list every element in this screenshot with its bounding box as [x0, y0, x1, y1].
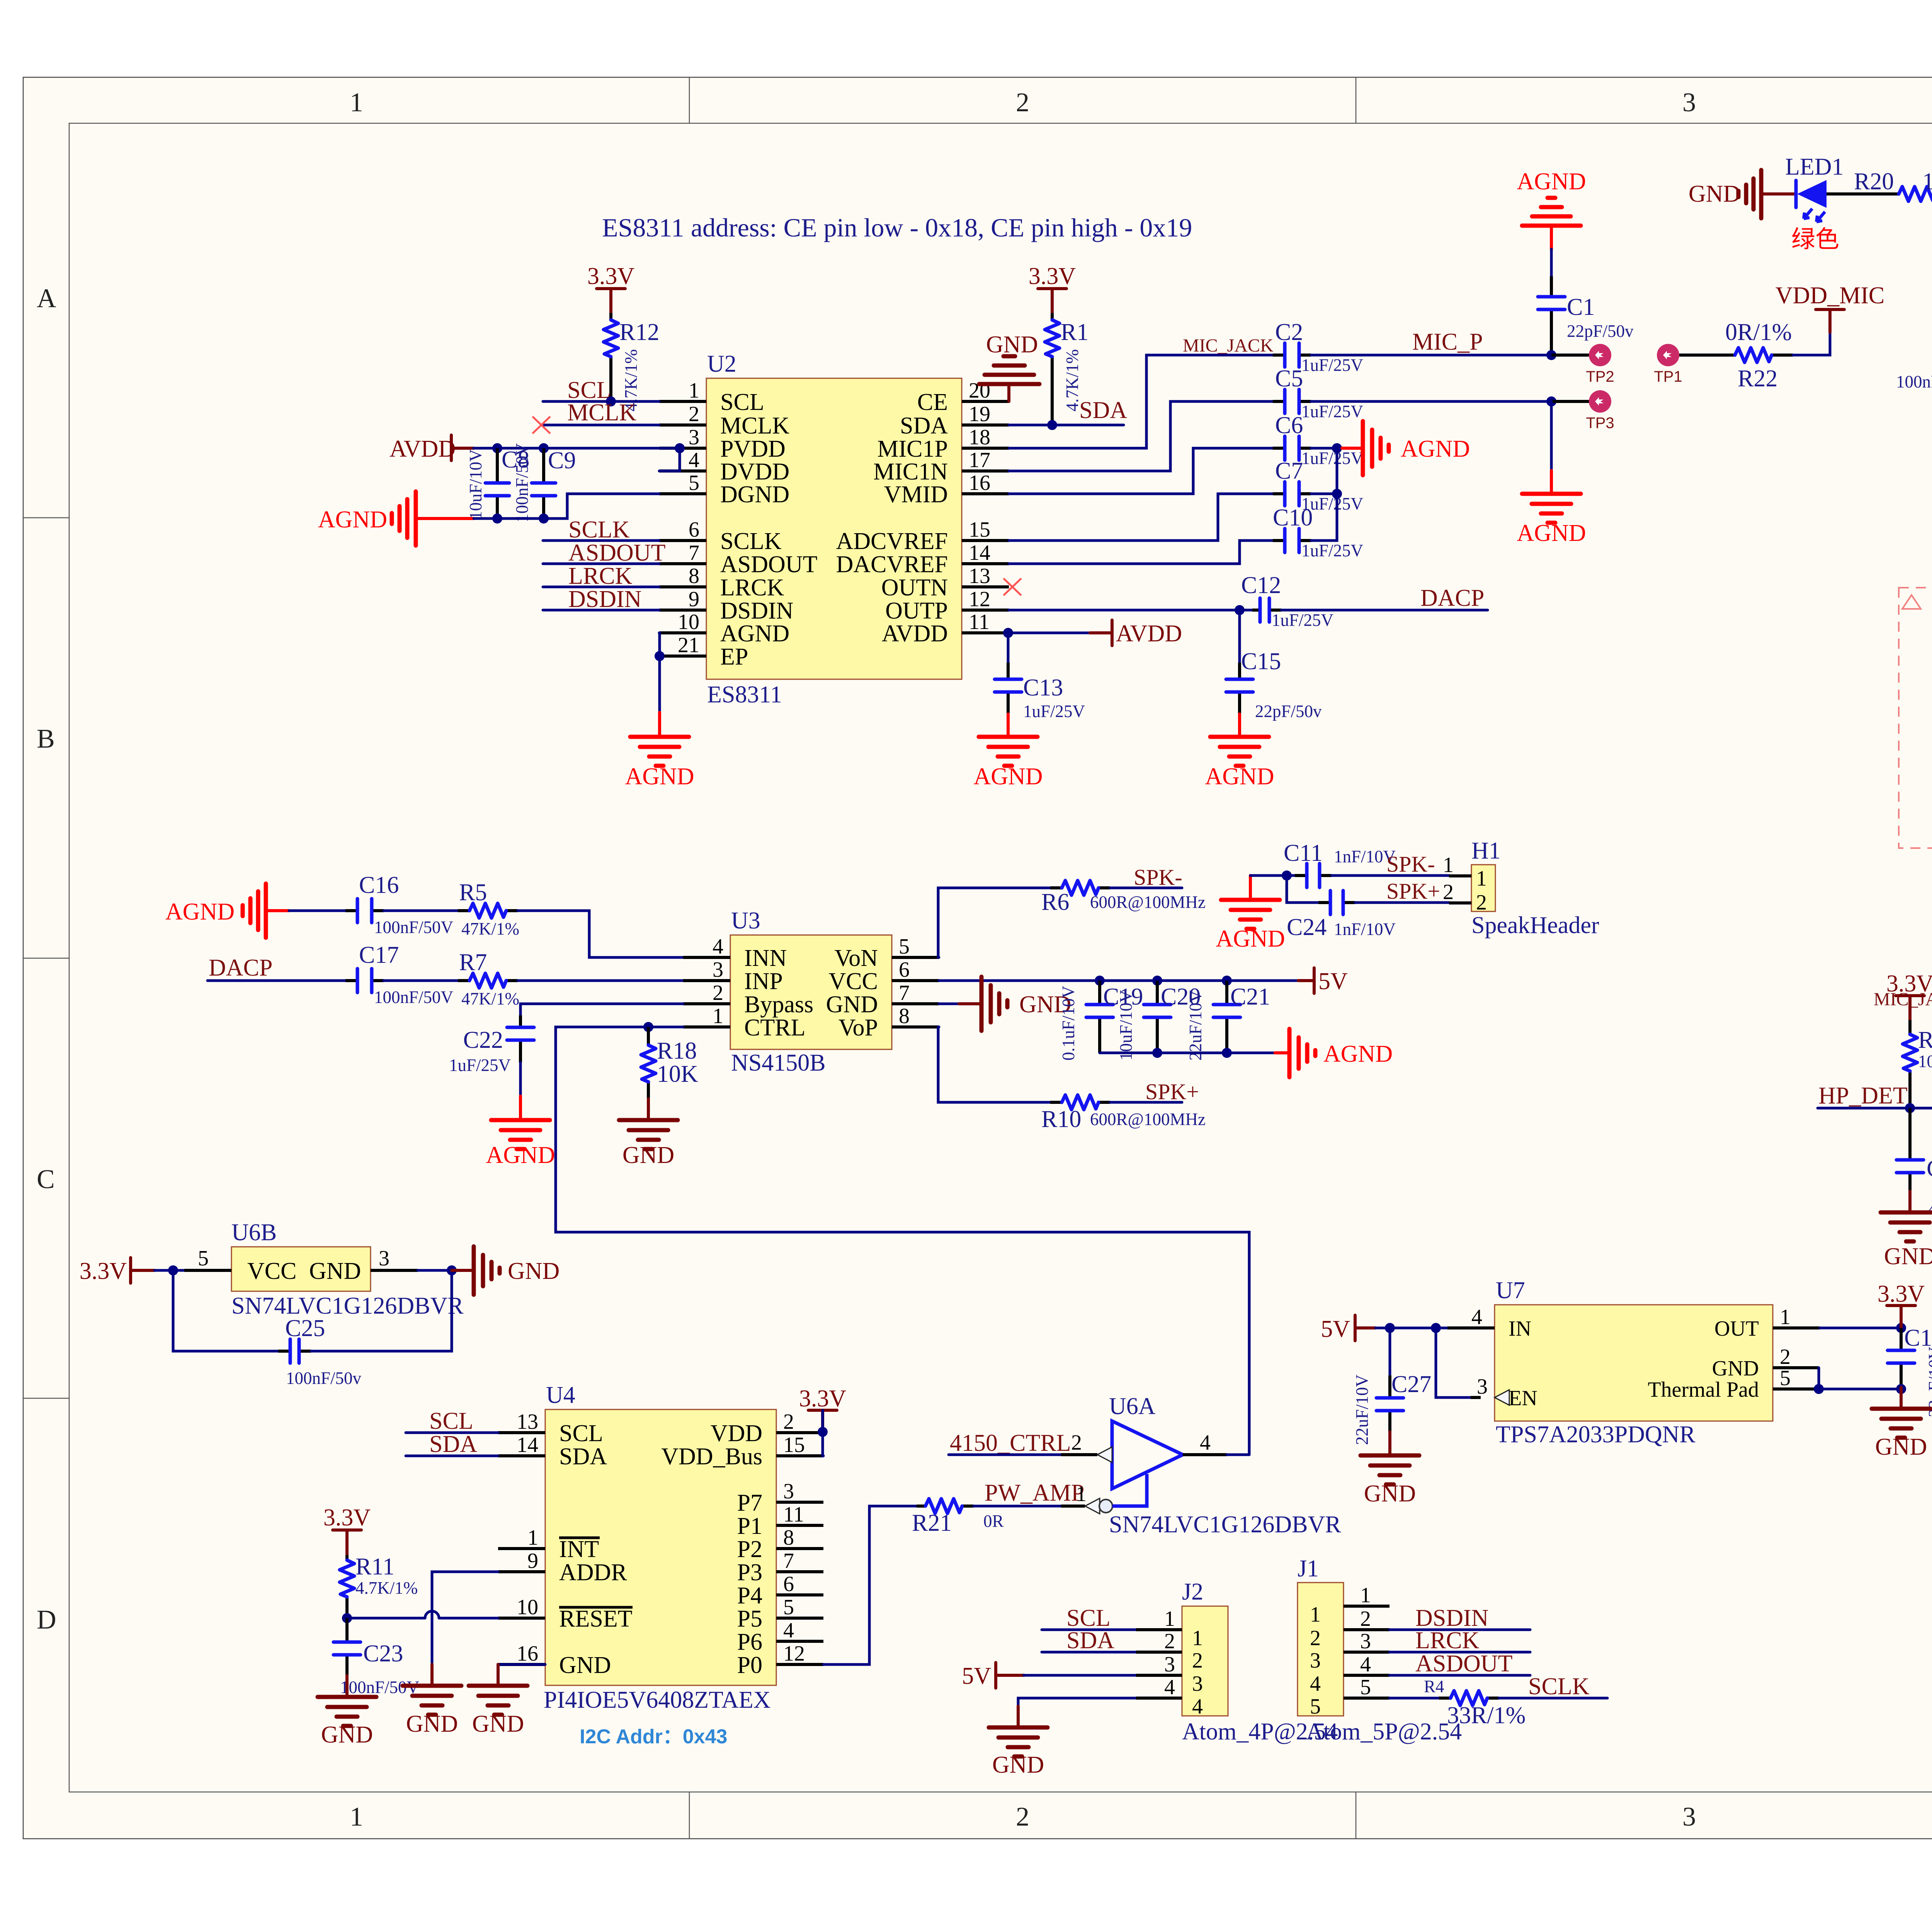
svg-text:INN: INN: [744, 945, 787, 971]
svg-text:5V: 5V: [1321, 1316, 1350, 1342]
ground AGND (left rail): [318, 491, 474, 546]
svg-text:AGND: AGND: [486, 1142, 555, 1168]
svg-text:7: 7: [689, 541, 699, 565]
svg-text:6: 6: [899, 958, 910, 982]
svg-text:Bypass: Bypass: [744, 991, 813, 1018]
power flag AVDD (left): [389, 435, 474, 462]
capacitor C21 22uF/10V: [1186, 981, 1270, 1061]
svg-text:C11: C11: [1284, 840, 1323, 866]
svg-text:GND: GND: [508, 1258, 560, 1284]
svg-text:2: 2: [1443, 880, 1454, 904]
resistor R5 47K/1%: [384, 879, 519, 938]
junction C18 bottom: [1896, 1384, 1906, 1394]
ground GND (C23): [318, 1676, 376, 1748]
capacitor C8 10uF/10V: [466, 447, 529, 520]
wire P0 to R21: [823, 1506, 917, 1664]
svg-text:21: 21: [678, 633, 699, 657]
svg-text:1: 1: [1476, 867, 1487, 891]
svg-text:10K: 10K: [657, 1061, 698, 1087]
ground AGND (C11): [1216, 876, 1285, 952]
svg-text:ES8311: ES8311: [707, 682, 782, 708]
U2 pin 11 AVDD: [962, 631, 1009, 634]
svg-text:ADCVREF: ADCVREF: [836, 528, 948, 554]
U2 pin 8 LRCK: [659, 585, 706, 588]
power flag 3.3V (U6B): [80, 1258, 155, 1284]
svg-text:47K/1%: 47K/1%: [461, 989, 519, 1008]
svg-text:C21: C21: [1230, 984, 1270, 1010]
svg-text:5: 5: [783, 1595, 794, 1619]
U2 pin 21 EP: [659, 655, 706, 658]
U4 pin 8 P2: [776, 1547, 823, 1550]
svg-text:DVDD: DVDD: [720, 459, 789, 485]
U4 pin 9 ADDR: [498, 1570, 545, 1573]
wire DGND rail: [474, 494, 659, 519]
svg-text:5: 5: [899, 935, 910, 959]
svg-text:C7: C7: [1275, 458, 1303, 484]
svg-text:GND: GND: [986, 332, 1038, 358]
svg-text:AGND: AGND: [1205, 763, 1274, 790]
wire LRCK: [543, 586, 659, 588]
svg-text:AGND: AGND: [1401, 436, 1470, 462]
svg-text:SN74LVC1G126DBVR: SN74LVC1G126DBVR: [1109, 1511, 1341, 1538]
svg-text:AGND: AGND: [1323, 1041, 1393, 1067]
wire DACP: [1281, 609, 1488, 612]
no-connect X OUTN: [1003, 578, 1021, 595]
svg-text:600R@100MHz: 600R@100MHz: [1090, 1110, 1206, 1129]
svg-text:17: 17: [969, 448, 990, 472]
capacitor C10 1uF/25V: [1273, 505, 1363, 560]
svg-text:C22: C22: [463, 1027, 503, 1053]
svg-text:OUTP: OUTP: [885, 598, 948, 624]
svg-text:10uF/10V: 10uF/10V: [1116, 990, 1136, 1061]
U2 pin 17 MIC1N: [962, 469, 1009, 473]
resistor R4 33R/1%: [1389, 1677, 1526, 1729]
svg-text:PI4IOE5V6408ZTAEX: PI4IOE5V6408ZTAEX: [544, 1687, 770, 1713]
svg-text:P3: P3: [737, 1559, 762, 1586]
svg-text:0R: 0R: [983, 1511, 1004, 1531]
U4 pin 2 VDD: [776, 1431, 823, 1434]
svg-text:ASDOUT: ASDOUT: [1415, 1651, 1512, 1677]
power flag 5V (J2): [962, 1663, 1024, 1689]
ground AGND (C1 top): [1517, 168, 1586, 249]
capacitor C20 10uF/10V: [1116, 981, 1201, 1061]
svg-text:U3: U3: [731, 908, 760, 934]
U2 pin 4 DVDD: [659, 469, 706, 473]
U4 pin 15 VDD_Bus: [776, 1454, 823, 1457]
svg-text:C17: C17: [359, 942, 399, 968]
U4 pin 10 RESET: [498, 1617, 545, 1620]
ground AGND (C22): [486, 1096, 555, 1168]
svg-text:22pF/50v: 22pF/50v: [1567, 321, 1634, 341]
connector J1 Atom_5P@2.54: [1298, 1556, 1462, 1745]
power flag 3.3V (R13): [1886, 971, 1932, 1020]
junction C9 bottom: [539, 513, 549, 524]
svg-text:Thermal Pad: Thermal Pad: [1648, 1378, 1759, 1402]
svg-text:2: 2: [1192, 1649, 1203, 1673]
IC U3 NS4150B: [683, 908, 939, 1076]
junction R13/C26: [1905, 1103, 1915, 1113]
svg-text:3: 3: [1682, 1802, 1696, 1832]
svg-text:7: 7: [899, 981, 910, 1005]
svg-text:6: 6: [783, 1572, 794, 1596]
svg-text:1: 1: [350, 88, 363, 117]
U2 pin 12 OUTP: [962, 609, 1009, 612]
ground GND (R18): [619, 1099, 678, 1168]
svg-text:1: 1: [350, 1802, 363, 1832]
svg-text:5: 5: [689, 471, 699, 495]
svg-text:U4: U4: [546, 1382, 575, 1408]
svg-text:3.3V: 3.3V: [80, 1258, 127, 1284]
svg-text:TP3: TP3: [1586, 415, 1614, 432]
svg-text:AGND: AGND: [625, 763, 694, 790]
svg-text:5: 5: [1780, 1366, 1791, 1390]
svg-text:22uF/10V: 22uF/10V: [1352, 1374, 1372, 1445]
connector H1 SpeakHeader: [1443, 838, 1599, 938]
svg-text:SPK-: SPK-: [1386, 852, 1435, 877]
svg-text:GND: GND: [622, 1142, 674, 1168]
resistor R7 47K/1%: [384, 949, 519, 1008]
svg-text:EN: EN: [1509, 1386, 1537, 1410]
svg-text:R20: R20: [1854, 168, 1894, 195]
IC U4 PI4IOE5V6408ZTAEX: [498, 1382, 823, 1713]
wire ASDOUT: [543, 563, 659, 565]
ground AGND (C16): [165, 884, 289, 938]
capacitor C7 1uF/25V: [1273, 458, 1363, 513]
U2 pin 7 ASDOUT: [659, 562, 706, 565]
svg-text:SCLK: SCLK: [1528, 1673, 1590, 1700]
wire OUTP: [1009, 609, 1252, 612]
wire VMID to C6: [1009, 448, 1273, 494]
svg-text:SDA: SDA: [900, 413, 948, 439]
ground GND (LED1): [1689, 170, 1796, 218]
svg-text:1: 1: [713, 1004, 723, 1028]
svg-text:8: 8: [899, 1004, 910, 1028]
svg-text:DSDIN: DSDIN: [568, 586, 641, 612]
capacitor C12 1uF/25V: [1241, 572, 1333, 630]
wire SDA: [1009, 424, 1124, 427]
svg-text:2: 2: [1310, 1626, 1321, 1650]
IC U6B SN74LVC1G126DBVR: [184, 1219, 464, 1319]
wire C7 to AGND column: [1311, 448, 1337, 494]
svg-text:C6: C6: [1275, 412, 1303, 439]
junction EP: [655, 651, 665, 661]
svg-text:AGND: AGND: [1517, 520, 1586, 546]
svg-text:3: 3: [1477, 1375, 1488, 1399]
ground AGND (U2 EP): [625, 712, 694, 790]
svg-text:4: 4: [713, 935, 723, 959]
svg-text:3.3V: 3.3V: [323, 1505, 371, 1531]
svg-text:DGND: DGND: [720, 481, 789, 508]
wire to C24: [1287, 876, 1318, 903]
svg-text:C24: C24: [1287, 914, 1327, 940]
svg-text:AGND: AGND: [165, 899, 235, 925]
resistor R21 0R: [912, 1499, 1004, 1536]
svg-text:11: 11: [969, 610, 990, 634]
svg-text:5: 5: [1360, 1675, 1371, 1699]
ground AGND (TP3): [1517, 471, 1586, 546]
svg-text:5V: 5V: [962, 1663, 991, 1689]
resistor R11 4.7K/1%: [340, 1554, 418, 1618]
U2 pin 2 MCLK: [659, 423, 706, 427]
svg-text:D: D: [37, 1605, 56, 1635]
ground GND (C18): [1872, 1387, 1930, 1460]
svg-text:C27: C27: [1391, 1371, 1431, 1397]
svg-text:U6B: U6B: [231, 1219, 277, 1246]
U2 pin 13 OUTN: [962, 585, 1009, 588]
capacitor C3 100nF/50v: [1896, 332, 1932, 391]
capacitor C11 1nF/10V: [1284, 840, 1396, 887]
svg-text:100nF/50v: 100nF/50v: [286, 1369, 362, 1388]
U2 pin 14 DACVREF: [962, 562, 1009, 565]
power flag 3.3V (R12): [587, 263, 635, 313]
svg-text:CE: CE: [917, 389, 948, 415]
wire R5 to INN: [518, 911, 683, 957]
svg-text:R6: R6: [1041, 889, 1069, 915]
svg-text:4: 4: [1471, 1305, 1482, 1329]
junction thermal: [1814, 1384, 1824, 1394]
svg-text:DACVREF: DACVREF: [836, 551, 948, 578]
wire SCLK J1: [1499, 1697, 1607, 1700]
wire R7 to INP: [518, 979, 683, 982]
wire ADCVREF to C7: [1009, 494, 1273, 541]
wire SDA (U4): [406, 1455, 498, 1457]
svg-text:DSDIN: DSDIN: [720, 598, 793, 624]
wire CTRL long route to U6A out: [556, 1027, 1249, 1455]
svg-text:C5: C5: [1275, 366, 1303, 392]
wire HP_DET row: [1818, 1107, 1932, 1110]
svg-text:10: 10: [517, 1595, 538, 1619]
junction C11: [1282, 870, 1292, 881]
wire J1 pin2 DSDIN: [1389, 1629, 1530, 1631]
svg-text:15: 15: [783, 1433, 805, 1457]
capacitor C23 100nF/50V: [333, 1618, 419, 1697]
junction C21 bottom: [1222, 1048, 1232, 1058]
svg-text:C10: C10: [1273, 505, 1313, 531]
svg-text:MCLK: MCLK: [720, 413, 789, 439]
resistor R12 4.7K/1%: [604, 313, 659, 411]
junction C18: [1896, 1323, 1906, 1333]
svg-text:12: 12: [969, 587, 990, 611]
svg-text:12: 12: [783, 1642, 805, 1666]
svg-text:C26: C26: [1927, 1156, 1932, 1182]
svg-text:3: 3: [1682, 88, 1696, 117]
U4 pin 1 INT: [498, 1547, 545, 1550]
svg-text:EP: EP: [720, 644, 748, 670]
svg-text:AGND: AGND: [720, 621, 789, 647]
svg-text:AGND: AGND: [1216, 926, 1285, 952]
LED LED1 绿色: [1785, 154, 1844, 253]
svg-text:9: 9: [527, 1549, 538, 1573]
junction C21: [1222, 976, 1232, 986]
svg-text:47K/1%: 47K/1%: [461, 919, 519, 938]
svg-text:P0: P0: [737, 1652, 762, 1678]
svg-text:1uF/25V: 1uF/25V: [1023, 702, 1085, 721]
svg-text:14: 14: [969, 541, 990, 565]
wire AVDD rail: [474, 448, 680, 471]
svg-text:DACP: DACP: [1420, 585, 1484, 611]
svg-text:8: 8: [689, 564, 699, 588]
wire MIC_JACK: [1009, 355, 1273, 448]
svg-text:2: 2: [1071, 1431, 1082, 1455]
wire AGND to C11: [1250, 874, 1295, 877]
svg-text:18: 18: [969, 425, 990, 449]
capacitor C1 22pF/50v: [1538, 249, 1634, 355]
svg-text:4150_CTRL: 4150_CTRL: [950, 1430, 1071, 1456]
wire J1 pin3 LRCK: [1389, 1651, 1530, 1654]
svg-text:4: 4: [1200, 1431, 1211, 1455]
svg-text:OUTN: OUTN: [881, 575, 948, 601]
svg-text:1: 1: [1076, 1482, 1087, 1506]
wire cap bottom rail: [1100, 1052, 1275, 1054]
svg-text:4: 4: [1360, 1652, 1371, 1676]
svg-text:100nF/50V: 100nF/50V: [512, 443, 532, 522]
svg-text:3: 3: [1192, 1672, 1203, 1696]
wire C10 to AGND column: [1311, 494, 1337, 541]
junction C8 bottom: [492, 513, 502, 524]
svg-text:1: 1: [1780, 1305, 1791, 1329]
svg-text:16: 16: [969, 471, 990, 495]
capacitor C13 1uF/25V: [995, 633, 1085, 721]
wire VCC rail: [939, 979, 1298, 982]
U2 pin 16 VMID: [962, 492, 1009, 495]
svg-text:C2: C2: [1275, 319, 1303, 345]
svg-text:PW_AMP: PW_AMP: [985, 1480, 1084, 1506]
svg-text:0R/1%: 0R/1%: [1725, 319, 1792, 345]
svg-text:SDA: SDA: [429, 1431, 477, 1457]
testpoint TP2: [1551, 344, 1614, 385]
junction VDD: [818, 1427, 828, 1437]
svg-text:C12: C12: [1241, 572, 1281, 598]
svg-text:INT: INT: [559, 1536, 599, 1562]
capacitor C9 100nF/50V: [512, 443, 576, 522]
svg-text:A: A: [37, 284, 56, 313]
svg-text:SDA: SDA: [559, 1443, 607, 1470]
wire GND pin16 down: [498, 1664, 545, 1686]
svg-text:R11: R11: [355, 1554, 395, 1580]
svg-text:R5: R5: [459, 879, 487, 906]
capacitor C6 1uF/25V: [1273, 412, 1363, 468]
ground GND (ADDR): [403, 1664, 461, 1737]
junction C20: [1152, 976, 1162, 986]
U4 pin 16 GND: [498, 1663, 545, 1666]
svg-text:P4: P4: [737, 1583, 762, 1609]
svg-text:3: 3: [689, 425, 699, 449]
capacitor C16 100nF/50V: [289, 872, 453, 937]
svg-text:4: 4: [1164, 1675, 1175, 1699]
resistor R20 1K: [1827, 168, 1932, 201]
U4 pin 3 P7: [776, 1501, 823, 1504]
svg-text:R10: R10: [1041, 1106, 1081, 1132]
svg-text:MIC_JACK: MIC_JACK: [1183, 335, 1274, 356]
svg-text:1: 1: [1310, 1603, 1321, 1627]
svg-text:600R@100MHz: 600R@100MHz: [1090, 893, 1206, 912]
svg-text:2: 2: [783, 1410, 794, 1434]
power flag VDD_MIC (R22): [1776, 282, 1884, 332]
svg-text:VDD: VDD: [711, 1420, 762, 1447]
svg-text:ES8311 address: CE pin low - 0: ES8311 address: CE pin low - 0x18, CE pi…: [602, 213, 1192, 242]
wire TP3 to AGND: [1550, 401, 1553, 471]
svg-text:2: 2: [1164, 1629, 1175, 1653]
svg-text:C25: C25: [285, 1315, 325, 1341]
svg-text:MIC_P: MIC_P: [1412, 329, 1483, 355]
svg-text:LRCK: LRCK: [720, 575, 784, 601]
svg-text:100nF/50v: 100nF/50v: [1896, 372, 1932, 391]
junction C7: [1332, 489, 1342, 499]
junction EN drop: [1431, 1323, 1441, 1333]
svg-text:2: 2: [1780, 1345, 1791, 1369]
svg-text:2: 2: [1016, 88, 1029, 117]
svg-text:SPK-: SPK-: [1134, 865, 1182, 890]
svg-text:6: 6: [689, 518, 699, 542]
power flag 3.3V (R1): [1029, 263, 1076, 313]
svg-text:GND: GND: [472, 1711, 524, 1737]
svg-text:C16: C16: [359, 872, 399, 898]
junction C6/AGND: [1332, 443, 1342, 453]
wire AVDD pin11: [1009, 632, 1090, 634]
U2 pin 15 ADCVREF: [962, 539, 1009, 542]
wire MIC1N to C5: [1009, 401, 1273, 471]
junction C1/MIC_P: [1546, 350, 1556, 360]
svg-text:4: 4: [1192, 1695, 1203, 1719]
capacitor C26 4.7uF/25V: [1896, 1108, 1932, 1221]
svg-text:TPS7A2033PDQNR: TPS7A2033PDQNR: [1496, 1421, 1696, 1448]
wire VDD/VDD_Bus: [823, 1410, 823, 1456]
svg-text:13: 13: [517, 1410, 538, 1434]
svg-text:U6A: U6A: [1109, 1393, 1156, 1420]
capacitor C15 22pF/50v: [1226, 610, 1322, 721]
wire AGND/EP: [659, 633, 660, 712]
resistor R18 10K: [641, 1027, 698, 1104]
svg-text:100nF/50V: 100nF/50V: [374, 918, 453, 937]
svg-text:C9: C9: [548, 447, 576, 474]
svg-text:C15: C15: [1241, 648, 1281, 675]
junction TP3: [1546, 396, 1556, 406]
svg-text:J2: J2: [1182, 1579, 1203, 1605]
svg-text:GND: GND: [559, 1652, 611, 1678]
svg-text:IN: IN: [1509, 1317, 1531, 1341]
capacitor C2 1uF/25V: [1273, 319, 1363, 375]
svg-text:P7: P7: [737, 1490, 762, 1516]
capacitor C25 100nF/50v: [278, 1315, 362, 1388]
svg-text:4: 4: [689, 448, 699, 472]
wire J1 pin4 ASDOUT: [1389, 1674, 1530, 1677]
wire 4150_CTRL to U6A: [949, 1454, 1078, 1456]
svg-text:U7: U7: [1496, 1277, 1525, 1304]
svg-text:1uF/25V: 1uF/25V: [1301, 541, 1363, 560]
svg-text:AGND: AGND: [318, 507, 387, 533]
svg-text:8: 8: [783, 1526, 794, 1550]
wire SCL: [543, 400, 659, 403]
resistor R13 100K/1%: [1903, 1020, 1932, 1108]
U2 pin 5 DGND: [659, 492, 706, 495]
svg-text:HP_DET: HP_DET: [1818, 1083, 1908, 1109]
no-connect X MCLK: [532, 417, 550, 434]
svg-text:MIC1N: MIC1N: [873, 459, 948, 485]
capacitor C18 22uF/10V: [1888, 1325, 1932, 1417]
svg-text:R7: R7: [459, 949, 487, 976]
svg-text:ASDOUT: ASDOUT: [568, 540, 665, 566]
svg-text:1: 1: [1360, 1583, 1371, 1607]
wire SPK+: [1110, 1101, 1182, 1104]
svg-text:U2: U2: [707, 351, 736, 377]
U3 pin 4 INN: [683, 956, 730, 959]
ground GND (U6B): [452, 1246, 560, 1295]
svg-text:1uF/25V: 1uF/25V: [1301, 449, 1363, 468]
capacitor C27 22uF/10V: [1352, 1328, 1431, 1445]
ground GND (C26): [1881, 1191, 1932, 1270]
svg-text:3: 3: [379, 1246, 389, 1270]
ground GND (J2): [989, 1706, 1048, 1778]
